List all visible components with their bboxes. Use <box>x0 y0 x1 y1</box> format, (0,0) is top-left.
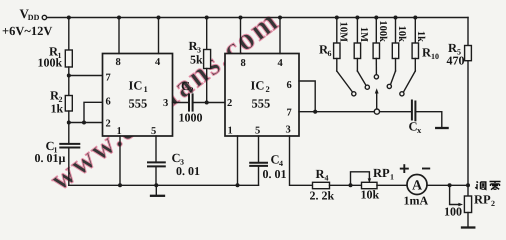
svg-text:6: 6 <box>106 97 111 108</box>
svg-text:8: 8 <box>116 57 121 68</box>
junction: VDD rail / R6 <box>335 16 339 20</box>
wire: IC2 pin 6 jog <box>299 81 315 112</box>
svg-text:4: 4 <box>278 58 284 69</box>
wire: R3 branch from rail <box>206 18 208 50</box>
label tiao ling (zero adjust) <box>475 182 500 190</box>
capacitor C3 <box>148 162 165 166</box>
wire: IC2 pin 1 to ground rail <box>237 136 239 185</box>
wire: Cx to ground <box>415 112 441 128</box>
potentiometer RP1 <box>362 182 378 188</box>
wire: RP2 wiper arm <box>450 185 461 204</box>
svg-text:10: 10 <box>431 52 439 61</box>
svg-text:1k: 1k <box>415 31 426 42</box>
junction: IC1 pin 6 tie to pin 2 <box>82 121 86 125</box>
wire: IC1 pin 5 down to C3 <box>155 136 157 162</box>
svg-text:8: 8 <box>241 58 246 69</box>
wire: IC1 pin 4 to rail <box>158 18 160 54</box>
wire: RP1 wiper arm <box>351 172 370 186</box>
svg-text:100k: 100k <box>38 56 63 70</box>
svg-text:1: 1 <box>228 126 233 137</box>
svg-text:4: 4 <box>155 57 161 68</box>
svg-text:+6V~12V: +6V~12V <box>2 24 52 38</box>
junction: VDD rail / R3 branch <box>205 16 209 20</box>
wire: C3 to ground rail <box>155 166 157 185</box>
wire: jog pin6 of IC1 <box>84 102 103 122</box>
wire: junction to IC1 pin 2 <box>69 122 103 124</box>
wire: IC2 pin 4 to rail <box>279 18 281 54</box>
svg-text:10k: 10k <box>361 188 380 202</box>
svg-text:IC: IC <box>251 79 265 93</box>
ground below C3 <box>151 185 164 196</box>
wire: IC2 pin 8 to rail <box>240 18 242 54</box>
svg-text:RP: RP <box>373 166 390 180</box>
svg-text:6: 6 <box>287 80 292 91</box>
svg-text:DD: DD <box>28 13 40 22</box>
svg-text:7: 7 <box>106 73 111 84</box>
svg-text:100k: 100k <box>377 20 388 42</box>
junction: R1-R2 / IC1 pin 7 node <box>67 74 71 78</box>
wire: bottom ground rail <box>69 184 259 186</box>
resistor R2 <box>65 96 72 112</box>
wire: junction to IC1 pin 7 <box>69 75 103 77</box>
junction: VDD rail / R1 branch <box>67 16 71 20</box>
svg-text:5k: 5k <box>190 53 203 67</box>
wire: C1 to ground rail <box>68 148 70 186</box>
ground below Cx <box>436 127 447 129</box>
watermark www.elecfans.com <box>43 4 284 198</box>
wire: R4 to RP1 <box>330 184 362 186</box>
svg-text:1: 1 <box>117 126 122 137</box>
switch S contacts <box>352 92 356 96</box>
svg-text:4: 4 <box>325 174 329 183</box>
wire: IC1 pin 1 to ground rail <box>119 136 121 185</box>
svg-text:IC: IC <box>129 79 143 93</box>
wire: IC2 pin 5 down to C4 <box>258 136 260 163</box>
svg-text:555: 555 <box>129 97 148 111</box>
wire: junction down to C1 <box>68 123 70 144</box>
svg-text:2: 2 <box>190 86 194 95</box>
svg-text:2: 2 <box>491 199 495 208</box>
svg-text:2: 2 <box>106 119 111 130</box>
resistor R1 <box>65 50 72 67</box>
svg-text:100: 100 <box>444 205 462 219</box>
meter polarity and value <box>400 164 430 173</box>
junction: C2 / R3 node <box>205 101 209 105</box>
svg-text:1mA: 1mA <box>404 193 429 207</box>
wire: R2 bottom to pins 2/6 junction <box>68 111 70 123</box>
svg-text:7: 7 <box>287 108 292 119</box>
svg-text:5: 5 <box>255 126 260 137</box>
resistor R9 10k <box>392 43 398 59</box>
svg-text:A: A <box>412 179 423 194</box>
svg-text:6: 6 <box>328 49 332 58</box>
wire: IC2 pin 3 down and right to R4 <box>290 136 313 185</box>
svg-text:0. 01: 0. 01 <box>263 167 287 181</box>
capacitor C1 <box>60 144 79 148</box>
capacitor C2 <box>189 94 193 110</box>
resistor R8 100k <box>373 43 379 59</box>
junction: ground rail / IC1 pin 1 <box>118 183 122 187</box>
svg-text:RP: RP <box>474 193 491 207</box>
svg-text:2: 2 <box>266 84 270 94</box>
wire: meter to right rail <box>427 184 468 186</box>
wire: C4 to ground rail corner <box>258 166 260 185</box>
switch S pole with wiper arrow <box>376 93 378 109</box>
svg-text:2. 2k: 2. 2k <box>310 189 335 203</box>
junction: VDD rail / R7 <box>355 16 359 20</box>
resistor R4 <box>313 182 330 188</box>
junction: VDD rail / IC1 pin 8 <box>117 16 121 20</box>
wire: IC1 pin 3 to C2 <box>173 102 190 104</box>
svg-text:1: 1 <box>144 84 148 94</box>
resistor R5 <box>465 46 472 61</box>
wire: left branch from rail to R1 <box>68 18 70 51</box>
wire: R1 to pin7 junction <box>68 67 70 98</box>
svg-text:470: 470 <box>447 54 465 68</box>
svg-text:3: 3 <box>163 98 168 109</box>
wire: IC1 pin 8 to rail <box>118 18 120 54</box>
junction: ground rail / C3 / ground <box>154 183 158 187</box>
svg-text:2: 2 <box>227 98 232 109</box>
svg-text:1k: 1k <box>51 102 64 116</box>
svg-text:0. 01µ: 0. 01µ <box>35 151 66 165</box>
resistor R3 <box>204 50 211 69</box>
svg-text:5: 5 <box>151 126 156 137</box>
wire: bank resistor leads <box>336 59 338 72</box>
resistor R6 10M <box>334 43 340 59</box>
node: VDD terminal <box>42 15 46 19</box>
svg-text:1000: 1000 <box>179 111 203 125</box>
junction: ground rail / IC2 pin 1 <box>236 183 240 187</box>
wire: C2 to IC2 pin 2 <box>193 102 225 104</box>
wire: diagonals to switch contacts <box>337 71 353 92</box>
junction: VDD rail / R10 <box>413 16 417 20</box>
wire: R3 to C2 output node <box>206 69 208 103</box>
svg-text:555: 555 <box>252 97 271 111</box>
junction: VDD rail / IC2 pin 8 <box>239 16 243 20</box>
resistor R7 1M <box>354 43 360 59</box>
junction: VDD rail / IC1 pin 4 <box>157 16 161 20</box>
junction: VDD rail / R9 <box>394 16 398 20</box>
meter A 1mA <box>407 175 427 195</box>
resistor bank branch wires <box>336 18 338 44</box>
svg-text:3: 3 <box>286 125 291 136</box>
resistor R10 1k <box>412 43 418 59</box>
wire: right rail top to R5 <box>467 18 469 46</box>
svg-text:1M: 1M <box>358 27 369 42</box>
wire: top VDD rail <box>47 17 468 19</box>
junction: meter output / RP2 wiper <box>448 183 452 187</box>
junction: R2 / C1 / IC1 pin 2 node <box>67 121 71 125</box>
junction: right rail / RP2 top <box>466 183 470 187</box>
wire: RP2 to ground <box>467 213 469 227</box>
junction: VDD rail / IC2 pin 4 <box>278 16 282 20</box>
svg-text:10M: 10M <box>338 22 349 43</box>
svg-text:10k: 10k <box>396 26 407 43</box>
svg-text:1: 1 <box>390 173 394 182</box>
op-amp IC1 555 box <box>103 54 173 137</box>
wire: R5 down right rail <box>467 61 469 196</box>
junction: VDD rail / R8 <box>374 16 378 20</box>
ground below RP2 <box>462 226 474 228</box>
wire: RP1 to meter <box>377 184 407 186</box>
capacitor Cx <box>412 101 416 121</box>
op-amp IC2 555 box <box>225 54 299 137</box>
svg-text:0. 01: 0. 01 <box>176 164 200 178</box>
capacitor C4 <box>250 163 267 166</box>
wire: IC2 pin 7 to Cx <box>299 111 412 113</box>
junction: IC2 pin 6 / pin 7 tie <box>313 110 317 114</box>
potentiometer RP2 <box>464 196 471 213</box>
junction: R4 / RP1 wiper node <box>349 183 353 187</box>
